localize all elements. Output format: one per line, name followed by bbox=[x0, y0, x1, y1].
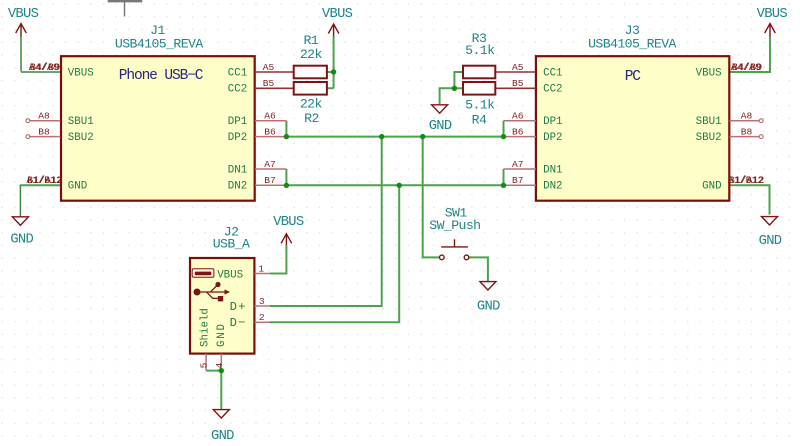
wire jog J1 A6-B6 bbox=[285, 121, 287, 137]
svg-text:D+: D+ bbox=[230, 300, 247, 314]
J1 pin B8 SBU2 bbox=[30, 136, 61, 138]
J1 pin B5 CC2 bbox=[255, 87, 294, 89]
svg-text:5: 5 bbox=[198, 362, 209, 368]
svg-text:B6: B6 bbox=[512, 126, 524, 137]
junction B7 at J1 jog bbox=[284, 183, 289, 188]
svg-text:DP2: DP2 bbox=[543, 132, 562, 144]
svg-text:USB4105_REVA: USB4105_REVA bbox=[115, 36, 203, 51]
J1 pin A8 SBU1 bbox=[30, 120, 61, 122]
svg-text:DN1: DN1 bbox=[543, 164, 562, 176]
svg-text:PC: PC bbox=[625, 69, 642, 85]
J3 pin A8 SBU1 bbox=[729, 120, 759, 122]
component J1 USB4105_REVA body bbox=[61, 56, 255, 201]
junction J2 GND bbox=[219, 368, 224, 373]
svg-text:SBU2: SBU2 bbox=[696, 132, 722, 144]
ground GND left bbox=[12, 217, 28, 226]
junction B6 at J3 jog bbox=[501, 134, 506, 139]
resistor R2 bbox=[294, 82, 327, 95]
svg-text:VBUS: VBUS bbox=[273, 215, 304, 230]
switch SW1 SW_Push bbox=[440, 239, 469, 259]
wire jog J1 A7-B7 bbox=[285, 169, 287, 185]
svg-text:VBUS: VBUS bbox=[8, 7, 39, 22]
junction R1 VBUS bbox=[331, 69, 336, 74]
svg-text:B8: B8 bbox=[38, 126, 50, 137]
ground GND R4 bbox=[432, 105, 448, 113]
svg-text:VBUS: VBUS bbox=[68, 67, 94, 79]
junction B6 at SW1 drop bbox=[420, 134, 425, 139]
power VBUS J2 bbox=[281, 234, 292, 245]
svg-text:B1/A12: B1/A12 bbox=[27, 175, 63, 186]
svg-text:22k: 22k bbox=[300, 47, 323, 62]
ground GND right bbox=[762, 217, 778, 225]
svg-text:DN1: DN1 bbox=[228, 164, 247, 176]
J3 pin B8 SBU2 bbox=[729, 136, 759, 138]
svg-text:R2: R2 bbox=[304, 111, 319, 126]
svg-text:CC2: CC2 bbox=[543, 84, 562, 96]
svg-text:Phone USB−C: Phone USB−C bbox=[119, 68, 204, 84]
J1 pin B6 DP2 bbox=[255, 136, 286, 138]
ground GND SW1 bbox=[480, 282, 496, 290]
junction B7 at D- drop bbox=[397, 183, 402, 188]
J3 pin B5 CC2 bbox=[495, 87, 536, 89]
svg-text:VBUS: VBUS bbox=[696, 67, 722, 79]
component J2 USB_A body bbox=[190, 258, 254, 354]
svg-text:GND: GND bbox=[211, 429, 234, 444]
svg-text:VBUS: VBUS bbox=[757, 7, 788, 22]
wire net DN2 B7 row bbox=[286, 184, 503, 186]
J1 pin A5 CC1 bbox=[255, 71, 294, 73]
svg-text:GND: GND bbox=[759, 234, 782, 249]
svg-text:GND: GND bbox=[702, 181, 721, 193]
svg-text:DP1: DP1 bbox=[228, 116, 247, 128]
svg-text:B4/B9: B4/B9 bbox=[30, 62, 61, 74]
svg-text:B7: B7 bbox=[512, 175, 524, 186]
wire J2 pins 4-5 to GND bbox=[206, 371, 221, 409]
wire D+ drop to J2 bbox=[270, 137, 382, 306]
wire J2 pin1 to VBUS bbox=[270, 245, 286, 274]
svg-text:A7: A7 bbox=[264, 159, 276, 170]
J1 pin A6 DP1 bbox=[255, 120, 286, 122]
svg-text:CC1: CC1 bbox=[543, 67, 562, 79]
svg-text:B5: B5 bbox=[263, 78, 275, 89]
svg-text:USB4105_REVA: USB4105_REVA bbox=[588, 36, 676, 51]
svg-text:GND: GND bbox=[68, 181, 87, 193]
svg-text:B5: B5 bbox=[512, 78, 524, 89]
svg-text:4: 4 bbox=[214, 362, 225, 368]
wire VBUS mid vertical bbox=[327, 37, 334, 89]
svg-text:A7: A7 bbox=[512, 159, 524, 170]
svg-text:22k: 22k bbox=[300, 96, 323, 111]
svg-text:SBU2: SBU2 bbox=[68, 132, 94, 144]
svg-text:5.1k: 5.1k bbox=[465, 43, 495, 58]
svg-text:SBU1: SBU1 bbox=[68, 116, 94, 128]
wire VBUS J3 right bbox=[729, 37, 770, 73]
svg-text:DN2: DN2 bbox=[228, 181, 247, 193]
svg-text:A8: A8 bbox=[38, 111, 50, 122]
J3 pin A5 CC1 bbox=[495, 71, 536, 73]
svg-text:B4/B9: B4/B9 bbox=[732, 62, 763, 74]
resistor R1 bbox=[294, 66, 327, 79]
svg-text:DN2: DN2 bbox=[543, 181, 562, 193]
wire net DP2 B6 row bbox=[286, 136, 503, 138]
svg-text:CC2: CC2 bbox=[228, 84, 247, 96]
svg-text:GND: GND bbox=[10, 232, 33, 247]
svg-text:B1/A12: B1/A12 bbox=[729, 175, 765, 186]
wire GND J3 right bbox=[729, 185, 769, 214]
svg-text:Shield: Shield bbox=[199, 308, 211, 347]
svg-text:D−: D− bbox=[230, 316, 247, 330]
svg-text:A5: A5 bbox=[512, 62, 524, 73]
svg-text:CC1: CC1 bbox=[228, 67, 247, 79]
J3 pin A6 DP1 bbox=[504, 120, 536, 122]
svg-text:5.1k: 5.1k bbox=[465, 98, 495, 113]
resistor R3 bbox=[463, 66, 495, 79]
svg-text:B6: B6 bbox=[264, 126, 276, 137]
svg-text:R1: R1 bbox=[303, 33, 318, 48]
svg-text:GND: GND bbox=[216, 322, 228, 347]
svg-text:DP2: DP2 bbox=[228, 132, 247, 144]
junction B6 at J1 jog bbox=[284, 134, 289, 139]
gray crosshair artifact bbox=[108, 0, 143, 17]
component J3 USB4105_REVA body bbox=[536, 56, 729, 201]
power VBUS mid bbox=[328, 24, 339, 37]
svg-text:B7: B7 bbox=[264, 175, 276, 186]
power VBUS left bbox=[16, 24, 27, 37]
svg-text:2: 2 bbox=[259, 312, 265, 323]
wire SW1 to GND bbox=[469, 257, 488, 281]
svg-text:VBUS: VBUS bbox=[217, 269, 243, 281]
svg-text:SBU1: SBU1 bbox=[696, 116, 722, 128]
wire GND J1 left bbox=[20, 184, 60, 186]
svg-text:DP1: DP1 bbox=[543, 116, 562, 128]
svg-text:USB_A: USB_A bbox=[213, 237, 250, 252]
wire VBUS J1 left bbox=[20, 37, 22, 72]
wire D- drop to J2 bbox=[270, 185, 399, 322]
J2 usb trident icon bbox=[194, 282, 231, 302]
J2 pin 4 GND bbox=[220, 354, 222, 371]
J3 pin A7 DN1 bbox=[504, 168, 536, 170]
J2 pin 5 Shield bbox=[205, 354, 207, 371]
svg-text:1: 1 bbox=[258, 264, 264, 275]
svg-text:3: 3 bbox=[259, 296, 265, 307]
svg-text:B8: B8 bbox=[741, 126, 753, 137]
svg-text:GND: GND bbox=[477, 300, 500, 315]
junction B7 at J3 jog bbox=[501, 183, 506, 188]
J1 pin A7 DN1 bbox=[255, 168, 286, 170]
J1 pin B7 DN2 bbox=[255, 184, 286, 186]
svg-text:A6: A6 bbox=[512, 111, 524, 122]
resistor R4 bbox=[463, 82, 495, 95]
J2 pin 2 D- bbox=[254, 321, 270, 323]
wire jog J3 A6-B6 bbox=[503, 121, 505, 137]
J2 pin 1 VBUS bbox=[254, 273, 270, 275]
J2 usb plug icon bbox=[192, 269, 214, 278]
J2 pin 3 D+ bbox=[254, 305, 270, 307]
wire R3 R4 left to GND bbox=[440, 72, 463, 104]
svg-text:A8: A8 bbox=[741, 111, 753, 122]
wire jog J3 A7-B7 bbox=[503, 169, 505, 185]
svg-text:A5: A5 bbox=[263, 62, 275, 73]
junction R3 R4 GND bbox=[452, 86, 457, 91]
svg-text:R4: R4 bbox=[472, 112, 487, 127]
svg-text:VBUS: VBUS bbox=[322, 7, 353, 22]
ground GND J2 bbox=[213, 410, 229, 418]
wire SW1 drop bbox=[423, 137, 440, 258]
svg-text:GND: GND bbox=[429, 119, 452, 134]
svg-text:A6: A6 bbox=[264, 111, 276, 122]
J3 pin B6 DP2 bbox=[504, 136, 536, 138]
J3 pin B7 DN2 bbox=[504, 184, 536, 186]
svg-text:SW_Push: SW_Push bbox=[429, 218, 480, 233]
power VBUS right bbox=[765, 24, 776, 37]
junction B6 at D+ drop bbox=[379, 134, 384, 139]
